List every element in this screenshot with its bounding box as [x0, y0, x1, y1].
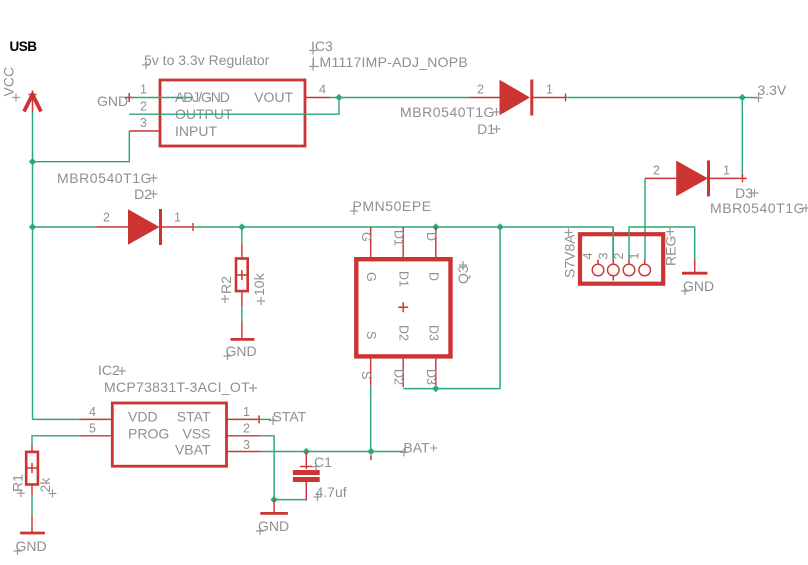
svg-text:D1: D1	[477, 121, 495, 137]
IC2 pin 4 red lead	[79, 418, 112, 420]
svg-text:5v to 3.3v Regulator: 5v to 3.3v Regulator	[144, 52, 270, 68]
svg-text:4: 4	[581, 253, 595, 260]
svg-text:4: 4	[89, 405, 96, 419]
REG pin stub 2	[628, 260, 630, 265]
diode D2	[33, 209, 194, 245]
svg-text:1: 1	[174, 211, 181, 225]
junction at Q3 right return tap	[496, 223, 503, 230]
Q3 top pin stub G	[370, 227, 372, 259]
Q3 bottom pin stub S	[370, 356, 372, 385]
svg-text:2: 2	[243, 422, 250, 436]
svg-text:INPUT: INPUT	[175, 123, 217, 139]
Q3 top pin stub D	[435, 227, 437, 259]
op-amp-style box IC3 body	[160, 80, 305, 146]
svg-text:2: 2	[103, 211, 110, 225]
wire Q3 S pin down to BAT+ node	[370, 385, 372, 451]
svg-text:USB: USB	[10, 39, 38, 54]
svg-text:BAT+: BAT+	[403, 440, 437, 456]
wire IC2 pin1 stub to STAT label	[259, 418, 271, 420]
diode D3	[645, 160, 747, 196]
svg-text:GND: GND	[97, 93, 128, 109]
svg-text:D: D	[427, 272, 441, 281]
D3 value MBR0540T1G	[710, 200, 808, 216]
REG origin tail under pin 3	[612, 276, 614, 281]
REG name label (rotated)	[663, 228, 679, 266]
D1 value MBR0540T1G	[400, 104, 500, 120]
IC3 pin 4 red lead	[305, 97, 330, 99]
value MCP73831T-3ACI_OT	[104, 379, 257, 395]
wire VCC rail vertical	[32, 112, 34, 420]
net label STAT	[269, 409, 307, 426]
R1 name label (rotated)	[10, 474, 26, 497]
wire VCC rail to IC2 pin4	[33, 418, 79, 420]
wire mid rail D2 to REG pin3 elbow	[193, 227, 613, 260]
svg-text:PMN50EPE: PMN50EPE	[353, 198, 432, 214]
IC2 pin 3 red lead	[227, 451, 261, 453]
C1 value 4.7uf	[314, 484, 347, 501]
svg-text:1: 1	[140, 83, 147, 97]
svg-text:2: 2	[653, 164, 660, 178]
svg-text:MBR0540T1G: MBR0540T1G	[710, 200, 805, 216]
junction on VCC rail at D2 row	[29, 223, 36, 230]
wire REG pin3 vertical	[612, 227, 614, 260]
svg-text:2: 2	[140, 100, 147, 114]
D2 name	[134, 186, 157, 202]
svg-text:2: 2	[612, 253, 626, 260]
wire VCC rail to IC3 INPUT elbow	[33, 131, 130, 162]
svg-text:VCC: VCC	[1, 67, 17, 97]
D2 value MBR0540T1G	[57, 170, 157, 186]
svg-text:D3: D3	[424, 369, 438, 385]
Q3 bottom pin stub D2	[402, 356, 404, 387]
svg-text:LM1117IMP-ADJ_NOPB: LM1117IMP-ADJ_NOPB	[312, 54, 468, 70]
GND text below R1	[14, 538, 47, 555]
svg-text:S7V8A: S7V8A	[562, 234, 578, 278]
label IC3	[309, 38, 333, 55]
wire IC2 pin5 to R1	[32, 436, 79, 445]
wire VOUT to 3.3V net	[330, 97, 469, 99]
svg-text:3.3V: 3.3V	[758, 82, 787, 98]
REG pin circle 4	[592, 264, 604, 276]
svg-text:D2: D2	[397, 325, 411, 341]
IC2 pin 2 red lead	[227, 435, 261, 437]
svg-text:D2: D2	[134, 186, 152, 202]
svg-text:4: 4	[319, 83, 326, 97]
junction at R2 tap	[238, 223, 245, 230]
label VCC	[1, 67, 21, 102]
svg-text:PROG: PROG	[128, 426, 169, 442]
svg-text:MBR0540T1G: MBR0540T1G	[57, 170, 152, 186]
junction on VCC rail at IC3 input branch	[29, 158, 36, 165]
wire 3.3V junction down to D3	[741, 98, 743, 178]
ground symbol below C1	[260, 500, 288, 514]
svg-text:5: 5	[89, 422, 96, 436]
Q3 origin cross	[398, 302, 408, 312]
svg-text:1: 1	[546, 83, 553, 97]
IC3 pin 3 red lead	[129, 130, 160, 132]
wire R2 top lead	[241, 227, 243, 243]
svg-text:1: 1	[723, 164, 730, 178]
wire Q3 D2/D3 bottom return	[403, 227, 500, 389]
svg-text:1: 1	[243, 405, 250, 419]
net label BAT+	[400, 440, 438, 457]
svg-text:VDD: VDD	[128, 409, 158, 425]
svg-text:D: D	[424, 232, 438, 241]
svg-text:D1: D1	[397, 271, 411, 287]
svg-text:R2: R2	[218, 276, 234, 294]
transistor Q3 body	[356, 259, 450, 356]
svg-text:MCP73831T-3ACI_OT: MCP73831T-3ACI_OT	[104, 379, 250, 395]
wire OUTPUT feedback run	[129, 98, 339, 115]
value LM1117IMP-ADJ_NOPB	[309, 54, 468, 71]
R1 value 2k (rotated)	[37, 477, 57, 498]
svg-text:STAT: STAT	[177, 409, 211, 425]
svg-text:2: 2	[477, 83, 484, 97]
label PMN50EPE	[350, 198, 432, 215]
wire D3 anode down to REG pin1	[644, 178, 646, 260]
svg-text:REG: REG	[663, 236, 679, 266]
svg-text:D2: D2	[392, 369, 406, 385]
svg-text:10k: 10k	[251, 272, 267, 296]
REG pin stub 1	[644, 260, 646, 265]
junction at Q3 D3 bottom pin	[432, 385, 439, 392]
junction at BAT+ node	[367, 448, 374, 455]
wire GND label to ADJ/GND pin	[129, 97, 193, 99]
IC2 pin 5 red lead	[79, 435, 112, 437]
connector REG body	[580, 234, 663, 284]
junction at C1 top	[303, 448, 310, 455]
net label GND at IC3 pin1	[97, 93, 134, 109]
svg-text:IC3: IC3	[311, 38, 333, 54]
wire IC2 pin3 VBAT to BAT+	[261, 451, 403, 453]
svg-text:R1: R1	[10, 474, 26, 492]
svg-text:D1: D1	[392, 230, 406, 246]
capacitor C1	[293, 452, 320, 501]
GND text for REG	[681, 278, 714, 295]
svg-text:2k: 2k	[37, 477, 53, 493]
svg-text:1: 1	[628, 253, 642, 260]
REG pin circle 1	[639, 264, 651, 276]
IC2 pin 1 red lead with end tick	[227, 415, 260, 423]
junction at VOUT feedback tap	[335, 94, 342, 101]
title text 5v to 3.3v Regulator	[142, 52, 270, 69]
svg-text:S: S	[359, 371, 373, 379]
wire D1 to 3.3V junction	[566, 97, 743, 99]
svg-text:G: G	[359, 232, 373, 242]
IC chip IC2 body	[112, 403, 226, 466]
REG value S7V8A (rotated)	[562, 229, 578, 279]
diode D1	[469, 80, 566, 116]
R2 value 10k (rotated)	[251, 272, 267, 305]
svg-text:VOUT: VOUT	[254, 89, 293, 105]
wire IC2 pin2 VSS down to C1 bottom	[261, 436, 307, 500]
svg-text:D3: D3	[427, 325, 441, 341]
junction 3.3V node	[739, 94, 746, 101]
R2 name label (rotated)	[218, 276, 234, 303]
svg-text:D3: D3	[735, 185, 753, 201]
resistor R1	[26, 445, 38, 495]
svg-text:3: 3	[243, 438, 250, 452]
wire R2 bottom	[241, 306, 243, 322]
ground symbol below R2	[231, 322, 255, 339]
C1 name label	[312, 454, 332, 471]
REG pin stub 3	[612, 260, 614, 265]
Q3 name label (rotated)	[455, 261, 471, 284]
D1 name	[477, 121, 500, 137]
svg-text:VBAT: VBAT	[175, 442, 211, 458]
svg-text:STAT: STAT	[273, 409, 307, 425]
ground symbol for REG	[682, 260, 707, 274]
svg-text:3: 3	[140, 116, 147, 130]
svg-text:MBR0540T1G: MBR0540T1G	[400, 104, 495, 120]
REG pin circle 2	[623, 264, 635, 276]
net label 3.3V	[755, 82, 787, 102]
GND text below R2	[224, 343, 257, 360]
svg-text:3: 3	[597, 253, 611, 260]
wire R1 bottom	[31, 495, 33, 515]
resistor R2	[236, 243, 248, 306]
REG pin stub 4	[597, 260, 599, 265]
svg-text:IC2: IC2	[98, 362, 120, 378]
supply symbol VCC	[24, 91, 41, 114]
junction at Q3 D pin tap	[432, 223, 439, 230]
GND text below C1	[256, 518, 289, 535]
svg-text:C1: C1	[314, 454, 332, 470]
Q3 bottom pin stub D3	[435, 356, 437, 385]
wire REG pin2 to GND elbow	[629, 227, 695, 260]
wire stub to 3.3V label	[742, 97, 757, 99]
Q3 top pin stub D1	[402, 227, 404, 259]
D3 name	[735, 185, 758, 201]
red pin tick under BAT+ node	[370, 455, 372, 460]
svg-text:S: S	[364, 331, 378, 339]
label IC2	[98, 362, 126, 378]
junction at C1 gnd elbow	[270, 496, 277, 503]
ground symbol below R1	[20, 515, 45, 533]
svg-text:G: G	[364, 272, 378, 282]
REG pin circle 3	[608, 264, 620, 276]
svg-text:VSS: VSS	[182, 426, 210, 442]
